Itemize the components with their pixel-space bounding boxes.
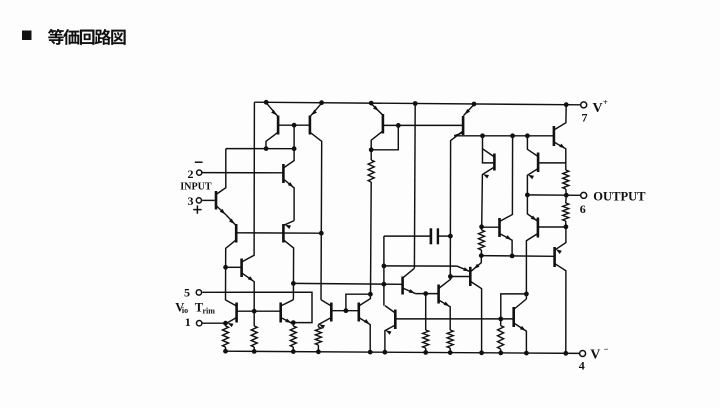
svg-text:7: 7 (582, 110, 588, 124)
svg-text:6: 6 (580, 202, 586, 216)
svg-text:V: V (593, 101, 603, 116)
transistor Q8 PNP current mirror (diode) (277, 116, 280, 135)
terminal pin 1 offset null (197, 321, 202, 326)
transistor Q3 PNP common-base (235, 224, 238, 243)
resistor R5 (370, 150, 372, 160)
transistor Q12 PNP (diode) (382, 114, 385, 134)
wire V- bottom rail (225, 351, 580, 353)
resistor R9 (563, 170, 569, 189)
transistor Q18 NPN diode (493, 154, 496, 171)
resistor R1 (225, 323, 227, 326)
wire pin5 to Q6 emitter node (202, 292, 312, 322)
transistor Q7 NPN base-current compensation (240, 259, 243, 278)
minus sign above pin 2 (195, 161, 203, 163)
svg-text:3: 3 (188, 194, 194, 208)
resistor R11 Q17 emitter (447, 330, 453, 348)
transistor Q17 NPN (437, 285, 440, 304)
wire Q5/Q6 base line (237, 310, 281, 312)
transistor Q4 PNP common-base (282, 224, 285, 243)
transistor Q5 NPN mirror left (235, 303, 238, 323)
terminal pin 6 OUTPUT and output wire (527, 194, 580, 196)
wire Q3/Q4 base line to Q9 collector node (237, 232, 322, 234)
transistor Q2 NPN input (-) (282, 164, 285, 183)
title text 等価回路図 (equivalent circuit diagram) (48, 29, 64, 45)
title bullet square (22, 31, 32, 41)
transistor Q9 PNP current mirror (309, 116, 312, 135)
resistor R12 Q17 base to V- (425, 294, 427, 330)
wire Q20 base line (481, 255, 554, 258)
transistor Q23 PNP pair (469, 267, 472, 286)
wire Q10/Q11 base tie to Q11 collector (332, 310, 359, 312)
svg-text:2: 2 (188, 167, 194, 181)
capacitor C1 30pF (430, 228, 433, 244)
wire pin1 to Q5 emitter node (203, 322, 226, 324)
transistor Q19 NPN (498, 218, 501, 237)
svg-text:OUTPUT: OUTPUT (593, 189, 646, 204)
svg-text:+: + (603, 97, 608, 107)
transistor Q22 NPN mirror out (394, 310, 397, 330)
svg-text:INPUT: INPUT (180, 180, 212, 192)
svg-text:1: 1 (185, 315, 191, 329)
transistor Q6 NPN mirror right (279, 303, 282, 323)
wire protection mirror base line (396, 318, 513, 320)
wire Q13 collector2 to Q14 base line (454, 135, 553, 137)
transistor Q10 NPN (330, 303, 333, 322)
transistor Q11 NPN (diode) (357, 303, 360, 322)
resistor R13 (500, 319, 502, 326)
svg-text:−: − (604, 344, 609, 354)
resistor R10 (565, 195, 568, 203)
transistor Q15 NPN current limit (537, 153, 540, 173)
transistor Q20 PNP output low (553, 247, 556, 267)
svg-text:V: V (590, 348, 600, 363)
transistor Q21 PNP current limit (537, 218, 540, 238)
resistor R2 (292, 323, 294, 326)
transistor Q14 NPN output high (553, 126, 556, 146)
terminal pin 2 inverting input (197, 170, 202, 175)
terminal pin 3 non-inverting input (196, 198, 201, 203)
junction Q3 collector / Q7 base (223, 265, 228, 270)
resistor R3 (253, 311, 255, 326)
wire V+ to Q16 collector (long vertical) (413, 104, 416, 269)
svg-text:4: 4 (579, 359, 585, 373)
junction dots on V+ rail (264, 100, 269, 105)
terminal pin 7 V+ (581, 102, 587, 108)
junction Q13/Q17 collectors compensation node (448, 274, 453, 279)
terminal pin 4 V- (580, 351, 586, 357)
transistor Q16 NPN (401, 277, 404, 295)
transistor Q13 PNP (462, 116, 465, 135)
terminal pin 5 offset null (196, 290, 201, 295)
resistor R7 (481, 227, 483, 230)
svg-text:rim: rim (203, 306, 216, 315)
wire V+ top rail (254, 102, 580, 105)
wire Q12 base tie (diode connection) (383, 124, 463, 126)
svg-text:5: 5 (184, 285, 190, 299)
wire Q1/Q2 collectors to Q8 collector/base (node) (226, 148, 294, 150)
svg-text:io: io (182, 306, 188, 315)
wire Q8/Q9 base tie (278, 124, 309, 126)
transistor Q24 NPN mirror (diode) (512, 307, 515, 327)
wire Q16 emitter to Q17 base (415, 293, 438, 295)
junction base node / R13 top (498, 317, 503, 322)
transistor Q1 NPN input (+) (215, 191, 218, 210)
wire C1/Q16-base node to Q23 emitter (384, 265, 457, 267)
resistor R4 (317, 325, 319, 327)
junction dots on V- rail (223, 349, 228, 354)
junction R7 top / Q19 base (479, 224, 484, 229)
plus sign below pin 3 (193, 209, 201, 211)
node Q6 collector to Q16 base line (291, 281, 296, 286)
